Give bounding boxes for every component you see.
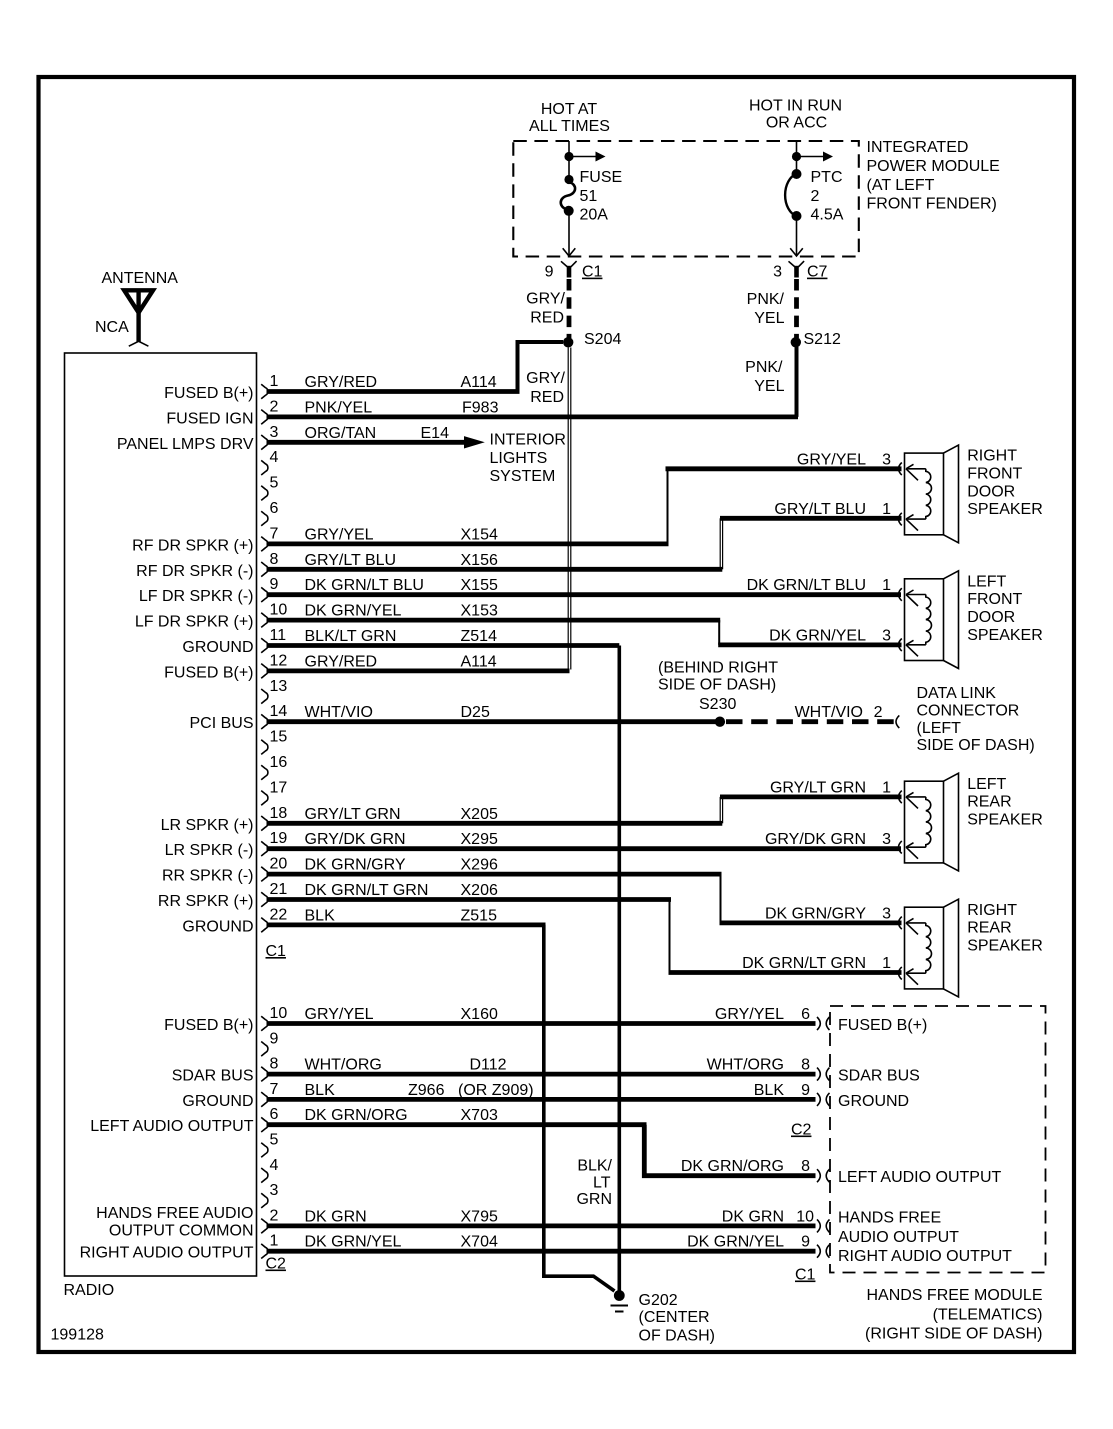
svg-text:ALL TIMES: ALL TIMES	[529, 118, 610, 135]
svg-text:GRY/RED: GRY/RED	[305, 653, 378, 670]
svg-text:16: 16	[270, 754, 288, 771]
svg-text:7: 7	[270, 1081, 279, 1098]
svg-text:LEFT: LEFT	[967, 776, 1006, 793]
svg-text:SPEAKER: SPEAKER	[967, 937, 1043, 954]
svg-text:14: 14	[270, 703, 288, 720]
svg-text:SIDE OF DASH): SIDE OF DASH)	[658, 677, 776, 694]
module pins and labels	[687, 1006, 1012, 1284]
svg-text:WHT/VIO: WHT/VIO	[305, 704, 373, 721]
connector C1 pin 9 (IPM output)	[545, 261, 603, 281]
svg-text:17: 17	[270, 779, 288, 796]
svg-text:SIDE OF DASH): SIDE OF DASH)	[917, 737, 1035, 754]
wire C2 pin 6 DK GRN/ORG X703	[267, 1107, 647, 1125]
svg-text:(AT LEFT: (AT LEFT	[867, 177, 935, 194]
svg-text:YEL: YEL	[754, 310, 784, 327]
svg-text:GRY/YEL: GRY/YEL	[305, 526, 374, 543]
svg-text:3: 3	[773, 264, 782, 281]
svg-text:X795: X795	[461, 1208, 498, 1225]
radio U1 box	[65, 353, 257, 1276]
svg-text:1: 1	[882, 501, 891, 518]
svg-text:G202: G202	[639, 1292, 678, 1309]
svg-text:X154: X154	[461, 526, 498, 543]
wire C2 pin 2 DK GRN X795	[267, 1208, 816, 1226]
wire PNK/YEL from S212 to radio pin 2	[795, 347, 799, 417]
svg-text:(RIGHT SIDE OF DASH): (RIGHT SIDE OF DASH)	[865, 1326, 1043, 1343]
svg-text:20: 20	[270, 856, 288, 873]
wire Z515 ground run pin 22 to G202	[544, 925, 615, 1291]
svg-text:10: 10	[270, 602, 288, 619]
svg-text:18: 18	[270, 805, 288, 822]
svg-text:DK GRN: DK GRN	[722, 1208, 784, 1225]
svg-text:BLK/: BLK/	[577, 1158, 612, 1175]
svg-text:(CENTER: (CENTER	[639, 1309, 710, 1326]
svg-text:LEFT: LEFT	[967, 573, 1006, 590]
antenna NCA	[95, 270, 178, 346]
svg-text:OR ACC: OR ACC	[766, 115, 827, 132]
wire pin 10 DK GRN/YEL X153	[267, 603, 721, 621]
svg-text:ORG/TAN: ORG/TAN	[305, 425, 377, 442]
svg-text:(OR Z909): (OR Z909)	[458, 1082, 534, 1099]
svg-text:X295: X295	[461, 831, 498, 848]
integrated power module box	[513, 141, 859, 257]
riser pin 8 wire to RF speaker - (double thin)	[720, 518, 722, 569]
svg-text:(TELEMATICS): (TELEMATICS)	[933, 1306, 1043, 1323]
svg-text:20A: 20A	[580, 207, 609, 224]
splice S212	[791, 337, 801, 347]
svg-text:X155: X155	[461, 577, 498, 594]
svg-text:PNK/: PNK/	[745, 359, 783, 376]
svg-text:POWER MODULE: POWER MODULE	[867, 158, 1000, 175]
wire Z514 ground riser pin 11 to G202	[617, 646, 621, 1292]
svg-text:GRY/YEL: GRY/YEL	[305, 1006, 374, 1023]
left front door speaker	[899, 571, 1043, 669]
svg-text:FUSED B(+): FUSED B(+)	[164, 664, 253, 681]
svg-text:1: 1	[882, 779, 891, 796]
svg-text:9: 9	[801, 1082, 810, 1099]
wire pin 2 PNK/YEL F983	[267, 399, 799, 417]
svg-text:22: 22	[270, 906, 288, 923]
svg-text:GRY/LT GRN: GRY/LT GRN	[770, 779, 866, 796]
svg-text:LEFT AUDIO OUTPUT: LEFT AUDIO OUTPUT	[90, 1118, 254, 1135]
wire GRY/RED dashed drop to S204	[567, 279, 572, 338]
splice S204	[563, 337, 573, 347]
svg-text:FRONT FENDER): FRONT FENDER)	[867, 196, 997, 213]
wire GRY/LT GRN 1 to LR speaker	[720, 779, 902, 797]
svg-text:S230: S230	[699, 696, 736, 713]
right front door speaker	[899, 445, 1043, 543]
svg-text:5: 5	[270, 1132, 279, 1149]
svg-text:HANDS FREE MODULE: HANDS FREE MODULE	[866, 1287, 1042, 1304]
svg-text:DK GRN/YEL: DK GRN/YEL	[305, 603, 402, 620]
svg-text:FUSED B(+): FUSED B(+)	[838, 1017, 927, 1034]
wire GRY/YEL 3 to RF speaker	[666, 451, 902, 469]
svg-text:AUDIO OUTPUT: AUDIO OUTPUT	[838, 1229, 959, 1246]
svg-text:F983: F983	[462, 399, 499, 416]
riser pin 21 wire to RR speaker -	[669, 900, 671, 973]
wire GRY/LT BLU 1 to RF speaker	[720, 501, 902, 519]
svg-text:LT: LT	[593, 1175, 611, 1192]
wire GRY/DK GRN 3 label LR speaker	[765, 831, 891, 848]
svg-text:FUSED B(+): FUSED B(+)	[164, 385, 253, 402]
svg-text:6: 6	[270, 500, 279, 517]
svg-text:DK GRN/ORG: DK GRN/ORG	[681, 1158, 784, 1175]
right rear speaker	[899, 899, 1043, 997]
svg-text:9: 9	[270, 1030, 279, 1047]
svg-text:DK GRN/YEL: DK GRN/YEL	[769, 627, 866, 644]
svg-text:NCA: NCA	[95, 319, 129, 336]
hands free module box	[830, 1006, 1046, 1273]
svg-text:LF DR SPKR (+): LF DR SPKR (+)	[135, 614, 254, 631]
wire pin 18 GRY/LT GRN X205	[267, 806, 723, 824]
svg-text:9: 9	[801, 1234, 810, 1251]
svg-text:10: 10	[270, 1005, 288, 1022]
wire pin 19 GRY/DK GRN X295	[267, 831, 902, 849]
svg-text:ANTENNA: ANTENNA	[102, 270, 179, 287]
wire DK GRN/GRY 3 to RR speaker	[720, 905, 902, 923]
svg-text:OF DASH): OF DASH)	[639, 1328, 715, 1345]
riser C2 pin 6 to module left audio output	[644, 1125, 815, 1176]
wire DK GRN/LT BLU 1 label LF speaker	[747, 577, 892, 594]
wire WHT/VIO 2 dashed to data link connector	[726, 704, 899, 728]
svg-text:1: 1	[882, 955, 891, 972]
svg-text:GRY/LT BLU: GRY/LT BLU	[305, 552, 397, 569]
svg-text:X703: X703	[461, 1107, 498, 1124]
svg-text:RED: RED	[530, 389, 564, 406]
wire C2 pin 1 DK GRN/YEL X704	[267, 1234, 816, 1252]
svg-text:RF DR SPKR (-): RF DR SPKR (-)	[136, 563, 253, 580]
svg-text:1: 1	[270, 1233, 279, 1250]
svg-text:DK GRN/YEL: DK GRN/YEL	[305, 1234, 402, 1251]
svg-text:4.5A: 4.5A	[811, 207, 844, 224]
wire pin 22 BLK Z515 ground run	[267, 907, 546, 925]
svg-text:DOOR: DOOR	[967, 483, 1015, 500]
svg-text:HOT IN RUN: HOT IN RUN	[749, 98, 842, 115]
svg-text:RIGHT: RIGHT	[967, 902, 1017, 919]
svg-text:LR SPKR (+): LR SPKR (+)	[161, 817, 254, 834]
svg-text:WHT/ORG: WHT/ORG	[305, 1057, 382, 1074]
radio connector C2 pins 10-1	[261, 1005, 287, 1273]
wire pin 14 WHT/VIO D25 PCI bus	[267, 704, 718, 722]
svg-text:8: 8	[801, 1158, 810, 1175]
svg-text:GRY/LT GRN: GRY/LT GRN	[305, 806, 401, 823]
svg-text:RIGHT AUDIO OUTPUT: RIGHT AUDIO OUTPUT	[80, 1245, 254, 1262]
svg-text:SPEAKER: SPEAKER	[967, 811, 1043, 828]
svg-text:FRONT: FRONT	[967, 591, 1022, 608]
svg-text:(LEFT: (LEFT	[917, 720, 962, 737]
svg-text:C1: C1	[266, 943, 287, 960]
svg-text:7: 7	[270, 525, 279, 542]
svg-text:C2: C2	[791, 1122, 812, 1139]
left rear speaker	[899, 773, 1043, 871]
svg-text:RED: RED	[530, 310, 564, 327]
svg-text:LF DR SPKR (-): LF DR SPKR (-)	[139, 588, 254, 605]
svg-text:GRY/RED: GRY/RED	[305, 374, 378, 391]
svg-text:C1: C1	[795, 1267, 816, 1284]
svg-text:5: 5	[270, 475, 279, 492]
svg-text:X704: X704	[461, 1234, 498, 1251]
svg-text:2: 2	[811, 188, 820, 205]
svg-text:DK GRN: DK GRN	[305, 1208, 367, 1225]
svg-text:GRY/YEL: GRY/YEL	[715, 1006, 784, 1023]
svg-text:GRY/DK GRN: GRY/DK GRN	[765, 831, 866, 848]
wire C2 pin 8 WHT/ORG D112 SDAR bus	[267, 1057, 816, 1075]
svg-text:6: 6	[270, 1106, 279, 1123]
feed label HOT AT ALL TIMES	[529, 101, 610, 135]
svg-text:GRY/LT BLU: GRY/LT BLU	[774, 501, 866, 518]
svg-text:RR SPKR (+): RR SPKR (+)	[158, 893, 254, 910]
fuse 51 20A	[561, 141, 622, 256]
wire pin 20 DK GRN/GRY X296	[267, 857, 722, 875]
svg-text:BLK: BLK	[305, 1082, 336, 1099]
svg-text:8: 8	[801, 1057, 810, 1074]
svg-text:FUSED B(+): FUSED B(+)	[164, 1017, 253, 1034]
wire DK GRN/ORG 8 label	[681, 1158, 810, 1175]
hands free module title	[865, 1287, 1043, 1343]
svg-text:PCI BUS: PCI BUS	[189, 715, 253, 732]
wire C2 pin 7 BLK Z966 (OR Z909)	[267, 1082, 816, 1100]
svg-text:BLK/LT GRN: BLK/LT GRN	[305, 628, 397, 645]
svg-text:PNK/: PNK/	[747, 291, 785, 308]
svg-text:BLK: BLK	[305, 907, 336, 924]
svg-text:C7: C7	[807, 264, 828, 281]
svg-text:Z515: Z515	[461, 907, 498, 924]
svg-text:C2: C2	[266, 1256, 287, 1273]
wire BLK/LT GRN label	[576, 1158, 612, 1209]
svg-text:D112: D112	[470, 1057, 507, 1074]
svg-text:SDAR BUS: SDAR BUS	[838, 1068, 920, 1085]
svg-text:1: 1	[882, 577, 891, 594]
svg-text:DK GRN/LT GRN: DK GRN/LT GRN	[742, 955, 866, 972]
svg-text:DATA LINK: DATA LINK	[917, 685, 997, 702]
svg-text:GROUND: GROUND	[838, 1093, 909, 1110]
svg-text:2: 2	[270, 1207, 279, 1224]
svg-text:SYSTEM: SYSTEM	[490, 468, 556, 485]
svg-text:12: 12	[270, 652, 288, 669]
svg-text:E14: E14	[421, 425, 450, 442]
svg-text:SPEAKER: SPEAKER	[967, 627, 1043, 644]
svg-text:WHT/VIO: WHT/VIO	[795, 704, 863, 721]
svg-text:GRY/: GRY/	[526, 370, 565, 387]
svg-text:DOOR: DOOR	[967, 609, 1015, 626]
svg-text:LEFT AUDIO OUTPUT: LEFT AUDIO OUTPUT	[838, 1169, 1002, 1186]
svg-text:HANDS FREE AUDIO: HANDS FREE AUDIO	[96, 1205, 253, 1222]
wire pin 11 BLK/LT GRN Z514 ground run	[267, 628, 620, 646]
svg-text:2: 2	[874, 704, 883, 721]
svg-text:INTERIOR: INTERIOR	[490, 432, 566, 449]
svg-text:3: 3	[882, 831, 891, 848]
wire DK GRN/YEL 3 to LF speaker	[718, 627, 901, 645]
feed label HOT IN RUN OR ACC	[749, 98, 842, 132]
svg-text:HOT AT: HOT AT	[541, 101, 598, 118]
ground G202	[611, 1290, 715, 1345]
svg-text:OUTPUT COMMON: OUTPUT COMMON	[109, 1223, 254, 1240]
svg-text:HANDS FREE: HANDS FREE	[838, 1210, 941, 1227]
svg-text:SDAR BUS: SDAR BUS	[172, 1068, 254, 1085]
svg-text:D25: D25	[461, 704, 490, 721]
svg-text:8: 8	[270, 551, 279, 568]
svg-text:3: 3	[882, 627, 891, 644]
svg-text:RR SPKR (-): RR SPKR (-)	[162, 868, 254, 885]
svg-text:3: 3	[270, 1182, 279, 1199]
IPM title	[867, 139, 1000, 212]
svg-text:X296: X296	[461, 857, 498, 874]
svg-text:DK GRN/ORG: DK GRN/ORG	[305, 1107, 408, 1124]
svg-text:CONNECTOR: CONNECTOR	[917, 703, 1020, 720]
svg-text:4: 4	[270, 449, 279, 466]
svg-text:3: 3	[882, 451, 891, 468]
svg-text:A114: A114	[461, 653, 497, 670]
svg-text:LR SPKR (-): LR SPKR (-)	[165, 842, 254, 859]
svg-text:8: 8	[270, 1056, 279, 1073]
wire pin 12 GRY/RED A114	[267, 653, 570, 671]
wire GRY/RED from S204 to radio pin 1	[518, 342, 564, 392]
svg-text:C1: C1	[582, 264, 603, 281]
svg-text:LIGHTS: LIGHTS	[490, 450, 548, 467]
svg-text:RIGHT: RIGHT	[967, 448, 1017, 465]
riser pin 18 wire to LR speaker + (double thin)	[720, 797, 722, 823]
svg-text:3: 3	[882, 905, 891, 922]
svg-text:DK GRN/LT BLU: DK GRN/LT BLU	[747, 577, 866, 594]
svg-text:WHT/ORG: WHT/ORG	[707, 1057, 784, 1074]
svg-text:PTC: PTC	[811, 169, 843, 186]
svg-text:3: 3	[270, 424, 279, 441]
svg-text:S204: S204	[584, 331, 621, 348]
wire pin 8 GRY/LT BLU X156	[267, 552, 723, 570]
radio connector C1 pins 1-22	[261, 373, 287, 960]
svg-text:DK GRN/LT BLU: DK GRN/LT BLU	[305, 577, 424, 594]
svg-text:A114: A114	[461, 374, 497, 391]
svg-text:RIGHT AUDIO OUTPUT: RIGHT AUDIO OUTPUT	[838, 1248, 1012, 1265]
svg-text:6: 6	[801, 1006, 810, 1023]
svg-text:FUSE: FUSE	[580, 169, 623, 186]
svg-text:9: 9	[270, 576, 279, 593]
wire C2 pin 10 GRY/YEL X160	[267, 1006, 816, 1024]
wire GRY/RED thin run S204 to radio pin 12	[567, 348, 569, 670]
svg-text:REAR: REAR	[967, 794, 1011, 811]
data link connector label	[917, 685, 1035, 754]
wire pin 7 GRY/YEL X154	[267, 526, 669, 544]
svg-text:REAR: REAR	[967, 920, 1011, 937]
svg-text:DK GRN/GRY: DK GRN/GRY	[765, 905, 866, 922]
svg-text:Z966: Z966	[408, 1082, 445, 1099]
svg-text:BLK: BLK	[754, 1082, 785, 1099]
wire pin 9 DK GRN/LT BLU X155	[267, 577, 902, 595]
wire pin 3 ORG/TAN E14 to interior lights	[267, 425, 566, 485]
svg-text:S212: S212	[804, 331, 841, 348]
svg-text:11: 11	[270, 627, 287, 644]
svg-text:INTEGRATED: INTEGRATED	[867, 139, 969, 156]
svg-text:4: 4	[270, 1157, 279, 1174]
svg-text:19: 19	[270, 830, 288, 847]
svg-text:X156: X156	[461, 552, 498, 569]
wire pin 21 DK GRN/LT GRN X206	[267, 882, 672, 900]
svg-text:GROUND: GROUND	[182, 1093, 253, 1110]
svg-text:1: 1	[270, 373, 279, 390]
svg-text:GRY/DK GRN: GRY/DK GRN	[305, 831, 406, 848]
svg-text:YEL: YEL	[754, 378, 784, 395]
svg-text:GROUND: GROUND	[182, 918, 253, 935]
svg-text:DK GRN/GRY: DK GRN/GRY	[305, 857, 406, 874]
svg-text:GRY/: GRY/	[526, 291, 565, 308]
wire pin 1 GRY/RED A114	[267, 374, 520, 392]
splice S230	[715, 717, 725, 727]
PTC 2 4.5A	[785, 141, 844, 256]
riser pin 10 wire to LF speaker -	[718, 620, 720, 645]
svg-text:FUSED IGN: FUSED IGN	[166, 410, 253, 427]
svg-text:SPEAKER: SPEAKER	[967, 501, 1043, 518]
riser pin 20 wire to RR speaker +	[720, 874, 722, 923]
svg-text:RADIO: RADIO	[64, 1282, 115, 1299]
svg-text:13: 13	[270, 678, 288, 695]
radio pin function labels	[80, 385, 254, 1262]
svg-text:10: 10	[796, 1208, 814, 1225]
svg-text:X205: X205	[461, 806, 498, 823]
svg-text:9: 9	[545, 264, 554, 281]
svg-text:PNK/YEL: PNK/YEL	[305, 399, 373, 416]
svg-text:X160: X160	[461, 1006, 498, 1023]
wire PNK/YEL dashed drop to S212	[794, 279, 799, 338]
svg-text:GRY/YEL: GRY/YEL	[797, 451, 866, 468]
svg-text:(BEHIND RIGHT: (BEHIND RIGHT	[658, 659, 778, 676]
svg-text:FRONT: FRONT	[967, 466, 1022, 483]
svg-text:15: 15	[270, 729, 288, 746]
svg-text:GROUND: GROUND	[182, 639, 253, 656]
riser pin 7 wire to RF speaker +	[667, 469, 669, 544]
svg-text:X153: X153	[461, 603, 498, 620]
svg-text:X206: X206	[461, 882, 498, 899]
svg-text:RF DR SPKR (+): RF DR SPKR (+)	[132, 537, 253, 554]
svg-text:DK GRN/YEL: DK GRN/YEL	[687, 1234, 784, 1251]
wire DK GRN/LT GRN 1 to RR speaker	[669, 955, 902, 973]
svg-text:Z514: Z514	[461, 628, 498, 645]
svg-text:2: 2	[270, 398, 279, 415]
connector C7 pin 3 (IPM output)	[773, 261, 827, 281]
svg-text:21: 21	[270, 881, 288, 898]
svg-text:51: 51	[580, 188, 598, 205]
svg-text:GRN: GRN	[576, 1191, 612, 1208]
svg-text:199128: 199128	[51, 1327, 104, 1344]
svg-text:PANEL LMPS DRV: PANEL LMPS DRV	[117, 436, 254, 453]
svg-text:DK GRN/LT GRN: DK GRN/LT GRN	[305, 882, 429, 899]
